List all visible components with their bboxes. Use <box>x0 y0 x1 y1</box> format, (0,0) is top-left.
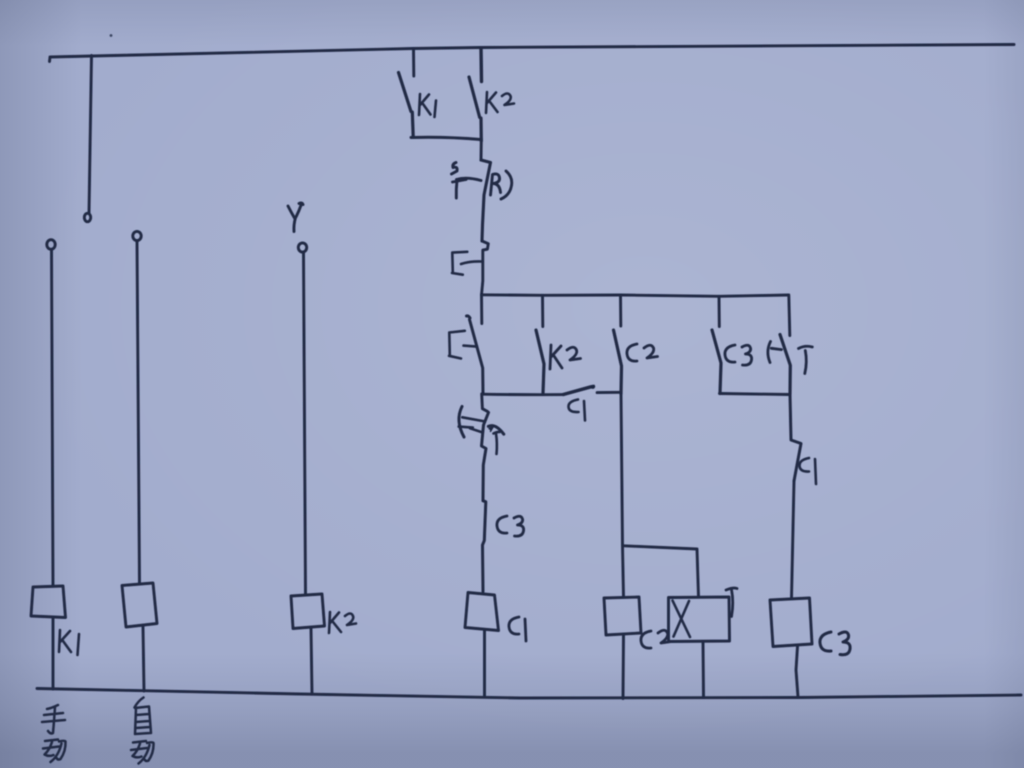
wire Y pole to K2 coil <box>304 253 306 595</box>
sub-branch to T coil <box>624 546 699 597</box>
wire auto to coil <box>137 241 140 584</box>
label K1 (contact) <box>419 94 436 117</box>
self-hold bus <box>483 393 563 396</box>
contact C1 (right branch) <box>790 395 801 482</box>
wire C2 coil to rail <box>622 635 625 699</box>
label C3 (main) <box>497 516 524 536</box>
wire C1 coil to rail <box>483 631 486 697</box>
Y pole glyph <box>288 203 303 232</box>
coil C1 <box>465 593 499 631</box>
contact C2 (bus branch) <box>619 295 622 326</box>
wire T coil to rail <box>702 642 705 697</box>
contact C3 (main branch) <box>483 501 486 592</box>
wire K1-K2 bottom link <box>411 137 481 139</box>
contact C1 (horizontal) <box>563 386 593 394</box>
label K2 (contact) <box>486 92 514 113</box>
thermal relay RJ <box>481 160 491 241</box>
wire to C3 coil <box>792 481 795 599</box>
coil auto-relay <box>122 583 157 627</box>
coil K2 <box>291 594 325 629</box>
label K2 (coil) <box>329 612 356 633</box>
coil K1 <box>31 586 66 618</box>
wire K2 coil to rail <box>311 629 312 695</box>
label K1 (coil) <box>59 630 79 655</box>
wire K1 coil to rail <box>52 618 55 690</box>
selector pole contact tip <box>84 213 90 221</box>
label manual (hand) <box>42 705 66 762</box>
label K2 (self-hold) <box>550 345 581 369</box>
label auto <box>131 698 154 764</box>
label C1 (horizontal contact) <box>568 400 585 421</box>
label C1 (right) <box>799 458 816 484</box>
paper speck <box>110 34 113 37</box>
timer NC contact (main branch) <box>482 394 488 412</box>
bottom rail L2 <box>37 689 1021 699</box>
contact K1 (top) <box>412 49 415 76</box>
contact K2 (top) <box>479 48 483 82</box>
label C3 (coil) <box>820 632 850 655</box>
selector pole wire <box>89 56 92 214</box>
wire K2 junction to RJ <box>480 139 483 160</box>
manual contact circle <box>47 240 55 250</box>
coil C2 <box>604 597 641 635</box>
label C1 (coil) <box>509 617 526 641</box>
label T (timer NC) <box>494 432 500 454</box>
stop button (NC) <box>482 241 489 295</box>
wire coil to rail <box>143 627 144 691</box>
label RJ <box>491 171 512 199</box>
label C3 <box>725 345 752 365</box>
label T (bus) <box>799 346 813 373</box>
coil C3 <box>770 598 812 647</box>
label T (coil) <box>726 588 737 617</box>
node bus junction <box>482 295 789 297</box>
wire C3 coil to rail <box>796 647 798 698</box>
power rail L1 (top) <box>50 45 1015 62</box>
contact T NC delayed (bus right end) <box>789 295 790 336</box>
coil T (with X) <box>669 597 730 642</box>
auto contact circle <box>133 231 141 240</box>
wire bus bottom C3-T <box>720 394 790 395</box>
contact K2 (self-hold) <box>541 296 544 327</box>
wire manual to K1 coil <box>52 250 54 587</box>
wire C2 branch down <box>621 394 624 597</box>
contact C3 (bus branch) <box>718 297 721 327</box>
label C2 (coil) <box>641 630 672 648</box>
label C2 <box>627 344 658 361</box>
start button (NO) <box>480 295 483 324</box>
Y pole contact circle <box>298 243 306 252</box>
